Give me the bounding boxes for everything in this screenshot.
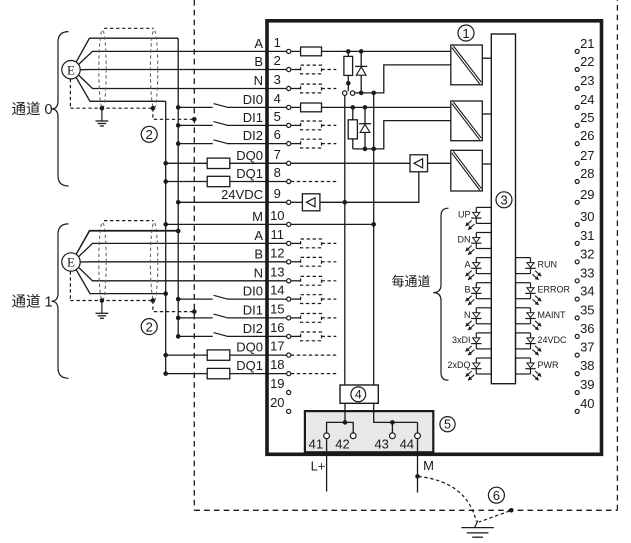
wire terminal 10 to internal M bus [291,223,374,225]
dashed stub terminal 8 [291,181,337,183]
svg-text:15: 15 [270,302,284,317]
terminal 14 contact [287,297,291,301]
wire terminal 13 to input resistor [291,280,301,282]
wire terminal 4 to input resistor [291,106,301,108]
terminal 12 contact [287,260,291,264]
LED 3xDI (channel) [466,333,492,355]
wire DI common to switch (terminal 14) [178,298,213,300]
terminal 19 contact [287,390,291,394]
terminal 23 contact [575,87,579,91]
svg-text:27: 27 [580,148,594,163]
svg-text:DI0: DI0 [243,284,263,299]
svg-text:14: 14 [270,283,284,298]
wire encoder ch0 signal B to terminal 2 [80,69,286,71]
svg-text:42: 42 [335,436,349,451]
junction DI0-D tap [363,105,368,110]
terminal 35 contact [575,316,579,320]
enclosure dashed border (right) [616,0,618,510]
wire supply driver to DQ driver [320,172,419,203]
terminal 28 contact [575,180,579,184]
wire M bus to load (terminal 8) [166,181,208,183]
terminal 11 contact [287,241,291,245]
load resistor terminal 17 [207,350,230,360]
svg-text:24: 24 [580,92,594,107]
svg-text:2: 2 [274,53,281,68]
termination resistor R1a [344,56,353,75]
svg-text:6: 6 [493,488,500,503]
terminal 27 contact [575,161,579,165]
svg-text:1: 1 [462,26,469,41]
junction shield end ch1 [151,298,156,303]
svg-text:17: 17 [270,339,284,354]
switch S15 (DI1) [214,314,227,318]
svg-text:DI0: DI0 [243,92,263,107]
svg-text:3: 3 [500,193,507,208]
wire terminal 16 to input resistor [291,335,301,337]
shield drain dashed wire ch0 [70,79,194,119]
svg-text:40: 40 [580,396,594,411]
wire encoder ch0 signal N to terminal 3 [79,75,287,89]
svg-text:ERROR: ERROR [538,285,571,295]
wire DI0 row to isolation [322,106,451,108]
wire rail 41-42 [327,422,354,433]
svg-text:通道 1: 通道 1 [12,293,53,310]
terminal 44 contact [415,433,421,439]
svg-text:6: 6 [274,127,281,142]
LED MAINT (module) [516,308,542,330]
terminal 42 contact [350,433,356,439]
svg-text:29: 29 [580,187,594,202]
svg-text:19: 19 [270,376,284,391]
wire encoder ch0 signal A to terminal 1 [79,51,287,64]
junction rail M [390,420,395,425]
svg-text:PWR: PWR [538,360,559,370]
svg-text:N: N [464,310,471,320]
svg-text:DQ1: DQ1 [236,358,263,373]
junction shield to enclosure ch1 [192,309,197,314]
wire M bus to load (terminal 7) [166,162,208,164]
input resistor R2 (not shown, dashed) [301,65,322,74]
wire DI common to switch (terminal 6) [178,143,213,145]
wire U2 to backplane [482,113,491,115]
cable shield tube ch0 [99,28,158,108]
wire M bus to load (terminal 18) [166,373,208,375]
wire DI common to switch (terminal 4) [178,106,213,108]
terminal 8 contact [287,179,291,183]
svg-text:8: 8 [274,165,281,180]
svg-text:B: B [464,285,470,295]
wire terminal 11 to input resistor [291,242,301,244]
junction shield-ground ch1 [100,298,105,303]
svg-text:31: 31 [580,228,594,243]
svg-text:DI1: DI1 [243,303,263,318]
svg-text:38: 38 [580,358,594,373]
svg-text:24VDC: 24VDC [538,335,568,345]
LED ERROR (module) [516,283,542,305]
terminal 6 contact [287,142,291,146]
terminal 4 contact [287,105,291,109]
svg-text:M: M [252,209,263,224]
wire 24VDC supply bus (left) [177,38,179,336]
terminal 32 contact [575,260,579,264]
junction shield end ch0 [151,106,156,111]
input resistor R11 (not shown, dashed) [301,239,322,248]
LED DN (channel) [466,233,492,255]
dashed stub terminal 14 [322,298,337,300]
module enclosure box [267,21,602,455]
wire terminal 15 to input resistor [291,317,301,319]
input resistor R16 (not shown, dashed) [301,332,322,341]
svg-text:23: 23 [580,73,594,88]
junction 24VDC bus y=299.1 [176,297,181,302]
input resistor R3 (not shown, dashed) [301,84,322,93]
wire encoder ch1 signal N to terminal 13 [79,267,287,281]
svg-text:3: 3 [274,72,281,87]
terminal 3 contact [287,86,291,90]
svg-text:2: 2 [146,319,153,334]
wire L+ supply [326,439,328,492]
wire terminal 2 to input resistor [291,69,301,71]
wire internal M bus [373,93,375,385]
terminal 24 contact [575,105,579,109]
wire supply to terminal rail L+ [344,403,346,422]
svg-text:34: 34 [580,284,594,299]
clamp diode D4 [359,107,371,148]
wire terminal 5 to input resistor [291,124,301,126]
junction M bus y=373.6 [163,371,168,376]
junction M bus y=163.3 [163,161,168,166]
junction A-D tap [359,49,364,54]
brace per-channel LEDs [433,208,448,380]
junction M bus y=355.1 [163,353,168,358]
LED B (channel) [466,283,492,305]
svg-text:N: N [254,73,263,88]
svg-text:DN: DN [458,235,471,245]
svg-text:DI2: DI2 [243,321,263,336]
svg-text:25: 25 [580,110,594,125]
clamp diode D1 [355,51,367,93]
label circled 2 ch0 [141,126,157,142]
svg-text:22: 22 [580,54,594,69]
brace channel 0 [52,32,69,186]
terminal 39 contact [575,391,579,395]
LED N (channel) [466,308,492,330]
svg-text:4: 4 [274,91,281,106]
LED PWR (module) [516,358,542,380]
terminal 21 contact [575,49,579,53]
svg-text:7: 7 [274,147,281,162]
wire encoder ch1 24VDC supply [76,231,178,255]
label circled 6 [488,487,504,503]
input resistor R4 [301,103,322,112]
dashed stub terminal 12 [322,261,337,263]
switch S4 (DI0) [214,104,227,108]
terminal 2 contact [287,67,291,71]
svg-text:A: A [254,36,263,51]
svg-text:E: E [67,62,75,77]
svg-text:5: 5 [274,109,281,124]
junction shield to enclosure ch0 [192,117,197,122]
junction 24VDC bus y=202.3 [176,200,181,205]
backplane bus interface block [491,34,515,384]
switch S5 (DI1) [214,122,227,126]
svg-text:B: B [254,246,263,261]
svg-text:1: 1 [274,35,281,50]
terminal 31 contact [575,241,579,245]
LED UP (channel) [466,207,492,229]
input resistor R6 (not shown, dashed) [301,139,322,148]
junction rail2-D4 [363,147,368,152]
wire M return bus (left) [165,101,167,373]
junction 24VDC bus y=317.9 [176,316,181,321]
switch S16 (DI2) [214,333,227,337]
svg-text:13: 13 [270,264,284,279]
terminal 16 contact [287,334,291,338]
svg-text:24VDC: 24VDC [221,187,263,202]
wire encoder ch0 M return [76,77,166,101]
input resistor R14 (not shown, dashed) [301,295,322,304]
shield drain dashed wire ch1 [70,271,194,311]
terminal 18 contact [287,372,291,376]
svg-text:11: 11 [271,227,285,242]
dashed stub terminal 15 [322,317,337,319]
wire A row to isolation [322,50,451,52]
junction internal 24VDC - terminal 9 row [343,200,348,205]
terminal 34 contact [575,297,579,301]
switch S14 (DI0) [214,295,227,299]
terminal 15 contact [287,316,291,320]
wire switch to terminal 6 [227,143,287,145]
svg-text:36: 36 [580,321,594,336]
junction 24VDC bus y=107.4 [176,105,181,110]
wire M bus to load (terminal 17) [166,354,208,356]
wire load to terminal 17 [230,354,287,356]
dashed stub terminal 2 [322,69,337,71]
dashed stub terminal 6 [322,143,337,145]
terminal 33 contact [575,279,579,283]
terminal 36 contact [575,334,579,338]
svg-text:B: B [254,54,263,69]
terminal 30 contact [575,222,579,226]
junction shield-ground ch0 [100,106,105,111]
terminal 29 contact [575,200,579,204]
brace channel 1 [52,224,69,378]
wire U1 to backplane [482,57,491,59]
terminal 22 contact [575,68,579,72]
isolation barrier U1 (counter A) [451,45,483,85]
termination contact right [350,91,354,95]
svg-text:A: A [254,228,263,243]
wire 43 drop [391,422,393,433]
dashed stub terminal 18 [291,373,337,375]
svg-text:DI2: DI2 [243,128,263,143]
junction 24VDC bus y=125.4 [176,123,181,128]
dashed stub terminal 3 [322,88,337,90]
junction R1a lead [346,81,351,86]
svg-text:DQ1: DQ1 [236,166,263,181]
svg-text:21: 21 [580,36,594,51]
junction A-R tap [346,49,351,54]
LED A (channel) [466,258,492,280]
isolation barrier U3 (DQ) [451,150,483,191]
wire DI common to switch (terminal 15) [178,317,213,319]
svg-text:44: 44 [400,436,414,451]
earth ground symbol [461,521,493,538]
wire internal 24VDC sensor supply bus [344,95,346,385]
ground symbol shield ch0 [96,108,109,126]
input resistor R13 (not shown, dashed) [301,276,322,285]
wire R4a bottom lead [352,139,354,149]
wire U3 to backplane [482,163,491,165]
svg-text:35: 35 [580,303,594,318]
label circled 2 ch1 [141,319,157,335]
junction enclosure-earth [509,508,514,513]
wire group1 rail [355,65,451,93]
wire switch to terminal 4 [227,106,287,108]
junction rail L+ [343,420,348,425]
input resistor R1 [301,47,322,56]
wire encoder ch1 signal B to terminal 12 [80,261,286,263]
svg-text:每通道: 每通道 [392,274,431,289]
terminal 5 contact [287,123,291,127]
junction M bus y=224.4 [163,222,168,227]
svg-text:16: 16 [270,320,284,335]
wire switch to terminal 16 [227,335,287,337]
svg-text:30: 30 [580,209,594,224]
terminal 41 contact [324,433,330,439]
power supply box 4 [340,385,378,403]
enclosure dashed border (left) [193,0,195,510]
svg-text:33: 33 [580,265,594,280]
wire terminal 9 to supply driver [291,201,303,203]
label circled 5 [440,417,455,432]
encoder E ch0 [62,60,80,78]
junction rail-D1 [359,91,364,96]
wire 24VDC bus to terminal 9 [178,201,286,203]
wire M bus to terminal 10 [166,223,287,225]
wire switch to terminal 14 [227,298,287,300]
LED 2xDQ (channel) [466,358,492,380]
wire terminal 6 to input resistor [291,143,301,145]
terminal 10 contact [287,222,291,226]
junction DI0-R tap [351,105,356,110]
termination contact left [343,91,347,95]
svg-text:37: 37 [580,340,594,355]
svg-text:10: 10 [270,208,284,223]
wire R1a bottom lead [347,75,349,91]
input resistor R4a [348,120,357,139]
svg-text:A: A [464,260,470,270]
wire terminal 1 to input resistor [291,50,301,52]
isolation barrier U2 (DI) [451,101,483,141]
terminal 1 contact [287,49,291,53]
svg-text:DQ0: DQ0 [236,148,263,163]
wire 44 drop [417,422,419,433]
terminal 37 contact [575,353,579,357]
encoder E ch1 [62,253,80,271]
wire switch to terminal 5 [227,124,287,126]
wire R1a top lead [347,51,349,56]
dashed stub terminal 17 [291,354,337,356]
terminal 20 contact [287,409,291,413]
svg-text:41: 41 [309,436,323,451]
terminal 7 contact [287,161,291,165]
junction 24VDC bus y=231.0 [176,229,181,234]
svg-text:2xDQ: 2xDQ [447,360,470,370]
wire DI common to switch (terminal 5) [178,124,213,126]
cable shield tube ch1 [99,221,158,301]
svg-text:26: 26 [580,128,594,143]
load resistor terminal 7 [207,158,230,168]
switch S6 (DI2) [214,140,227,144]
junction M bus y=293.6 [163,291,168,296]
power terminal block 5 [305,411,433,452]
svg-text:L+: L+ [311,458,326,473]
wire encoder ch1 signal A to terminal 11 [79,243,287,256]
svg-text:9: 9 [274,186,281,201]
svg-text:E: E [67,255,75,270]
wire supply to terminal rail M [374,403,418,422]
svg-text:3xDI: 3xDI [452,335,471,345]
svg-text:28: 28 [580,166,594,181]
svg-text:N: N [254,265,263,280]
label circled 4 [351,387,366,402]
dashed stub terminal 5 [322,124,337,126]
terminal 9 contact [287,200,291,204]
svg-text:32: 32 [580,246,594,261]
LED RUN (module) [516,258,542,280]
wire R4a top lead [352,107,354,119]
svg-text:2: 2 [146,127,153,142]
junction 24VDC bus y=336.4 [176,334,181,339]
wire encoder ch0 24VDC supply [76,38,178,62]
svg-text:39: 39 [580,377,594,392]
svg-text:20: 20 [270,395,284,410]
svg-text:DI1: DI1 [243,110,263,125]
wire terminal 7 to output driver [291,162,410,164]
terminal 17 contact [287,353,291,357]
dashed stub terminal 11 [322,242,337,244]
label circled 3 [496,192,512,208]
terminal 13 contact [287,279,291,283]
terminal 26 contact [575,142,579,146]
terminal 43 contact [390,433,396,439]
junction M bus y=181.5 [163,179,168,184]
svg-text:5: 5 [444,418,451,432]
svg-text:4: 4 [355,388,362,402]
dashed earth connection from M [418,476,476,521]
wire driver DQ0 to isolation [428,162,451,164]
wire load to terminal 18 [230,373,287,375]
output driver DQ0 [410,155,428,172]
wire switch to terminal 15 [227,317,287,319]
terminal 25 contact [575,123,579,127]
wire terminal 12 to input resistor [291,261,301,263]
wire DI common to switch (terminal 16) [178,335,213,337]
svg-text:通道 0: 通道 0 [12,101,53,118]
svg-text:UP: UP [458,209,471,219]
svg-text:DQ0: DQ0 [236,340,263,355]
terminal 40 contact [575,409,579,413]
wire load to terminal 8 [230,181,287,183]
LED 24VDC (module) [516,333,542,355]
wire M supply [417,439,419,493]
junction rail-M bus [371,91,376,96]
dashed stub terminal 13 [322,280,337,282]
wire terminal 3 to input resistor [291,88,301,90]
junction internal M - terminal 10 row [371,222,376,227]
junction 24VDC bus y=143.6 [176,141,181,146]
